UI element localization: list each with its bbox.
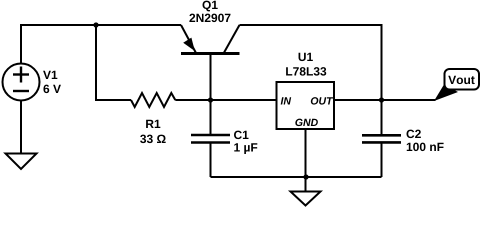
wire top rail right (collector to right rail): [240, 25, 382, 100]
capacitor C2: [362, 100, 401, 177]
base wire down: [210, 54, 212, 101]
wire U1 GND down: [305, 129, 307, 192]
wire bottom rail: [211, 176, 382, 178]
voltage source V1: [3, 64, 40, 101]
node junction top rail: [93, 22, 98, 27]
label U1: [299, 53, 313, 61]
node junction base/C1: [208, 97, 213, 102]
regulator U1: [277, 82, 335, 129]
ground (V1): [6, 154, 37, 170]
node junction bottom wire: [303, 174, 308, 179]
label C2 value: [407, 143, 444, 152]
label Q1 value: [189, 14, 230, 23]
base bar: [181, 52, 240, 55]
net flag Vout pointer: [434, 85, 458, 102]
pin OUT: [311, 97, 333, 104]
label R1: [146, 120, 160, 128]
ground (U1): [291, 192, 321, 206]
wire branch down from top rail to R1: [96, 25, 131, 100]
node junction OUT rail: [379, 97, 384, 102]
label C2: [406, 130, 420, 139]
wire R1 to U1 IN: [175, 99, 276, 101]
wire top rail left (V1 top to emitter): [21, 25, 181, 64]
net flag Vout box: [445, 69, 480, 90]
pin GND: [295, 119, 318, 126]
label R1 value: [140, 135, 166, 144]
transistor Q1: [181, 25, 240, 100]
label U1 value: [286, 67, 326, 76]
wire V1 bottom to ground: [20, 101, 22, 154]
emitter arrow: [183, 38, 195, 51]
net label Vout: [448, 76, 474, 84]
collector wire: [224, 25, 240, 54]
resistor R1: [131, 93, 175, 107]
emitter wire: [181, 25, 196, 53]
wire U1 OUT to Vout: [334, 99, 436, 101]
label Q1: [202, 1, 217, 12]
label C1 value: [234, 143, 257, 154]
label V1: [43, 71, 57, 79]
capacitor C1: [191, 100, 230, 177]
pin IN: [281, 97, 292, 104]
label V1 value: [43, 85, 60, 94]
label C1: [234, 131, 249, 140]
